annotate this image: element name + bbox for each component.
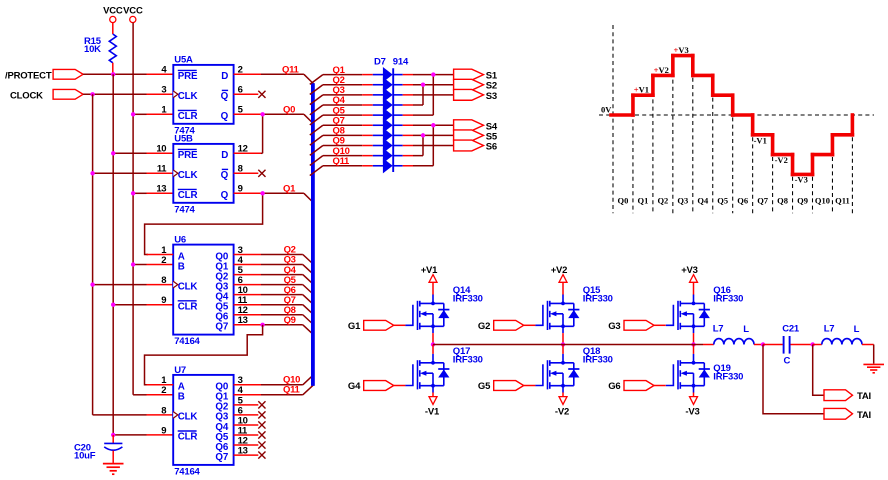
svg-text:10: 10 <box>156 144 166 155</box>
resistor R15 10K <box>84 23 116 75</box>
wire bus to diode D7 row Q8 <box>310 126 373 146</box>
input port /PROTECT <box>5 69 83 81</box>
waveform grid line 7 <box>752 137 754 213</box>
svg-text:CLR: CLR <box>178 432 198 443</box>
wire phase3 node to L7 <box>694 344 714 346</box>
svg-text:-V2: -V2 <box>555 406 569 417</box>
waveform level label -V3 <box>795 175 808 185</box>
wire /PROTECT net <box>83 73 173 75</box>
output port S2 <box>454 79 497 91</box>
diode D7 row Q1 <box>373 67 403 82</box>
wire net Q5 (U6 pin 6 to bus) <box>234 275 314 295</box>
label Q18 IRF330 <box>583 346 613 365</box>
waveform interval label Q6 <box>737 196 748 206</box>
wire diode row Q2 output <box>403 84 454 86</box>
svg-text:Q5: Q5 <box>717 196 728 206</box>
wire L7 to ground <box>862 345 874 364</box>
svg-text:74164: 74164 <box>174 336 200 347</box>
wire vcc rail (x=133.1) <box>132 23 134 395</box>
svg-text:U6: U6 <box>174 235 186 246</box>
waveform level label +V3 <box>674 45 689 55</box>
no-connect U7 pin 10 <box>234 421 266 428</box>
output port S5 <box>454 130 498 142</box>
svg-text:IRF330: IRF330 <box>453 294 483 305</box>
svg-text:0V: 0V <box>601 105 612 115</box>
diode D7 row Q3 <box>373 87 403 102</box>
wire node2 to TAI upper <box>813 345 824 396</box>
svg-text:CLR: CLR <box>178 190 198 201</box>
svg-text:CLOCK: CLOCK <box>10 90 43 101</box>
wire bus to diode D7 row Q11 <box>310 156 373 176</box>
wire +V1 to Q14 drain <box>432 282 434 294</box>
ground (below C20) <box>103 464 124 475</box>
wire diode row Q10 output <box>403 155 423 157</box>
svg-text:Q10: Q10 <box>815 196 830 206</box>
output port S1 <box>454 69 498 81</box>
waveform grid line 4 <box>692 78 694 213</box>
diode D7 row Q8 <box>373 128 403 143</box>
transistor Q17 IRF330 <box>405 354 449 393</box>
wire bus to diode D7 row Q5 <box>310 105 373 125</box>
svg-text:10uF: 10uF <box>74 451 96 462</box>
wire diode row Q11 output <box>403 165 434 167</box>
svg-text:+V1: +V1 <box>634 85 649 95</box>
wire node2 to L7 (second) <box>813 344 822 346</box>
svg-text:-V2: -V2 <box>775 155 788 165</box>
waveform level label +V2 <box>654 65 669 75</box>
wire junction drop S4 group <box>431 123 435 166</box>
wire C21 to node2 <box>791 344 813 346</box>
label Q16 IRF330 <box>713 285 743 304</box>
svg-text:CLR: CLR <box>178 111 198 122</box>
wire net Q6 (U6 pin 10 to bus) <box>234 285 314 305</box>
capacitor C20 10uF <box>74 433 122 463</box>
no-connect U7 pin 13 <box>234 451 266 458</box>
svg-text:2: 2 <box>161 255 166 266</box>
svg-text:Q: Q <box>221 190 229 201</box>
output port TAI (upper) <box>824 390 871 402</box>
wire net Q11 (U7 pin4 to bus) <box>234 384 314 395</box>
wire bus to diode D7 row Q4 <box>310 95 373 115</box>
IC U5B 7474 <box>156 134 247 216</box>
svg-text:Q: Q <box>221 111 229 122</box>
wire junction drop S2 group <box>421 83 425 105</box>
wire bus to diode D7 row Q7 <box>310 115 373 135</box>
svg-text:G3: G3 <box>608 321 620 332</box>
wire phase node to Q18 drain <box>562 345 564 354</box>
waveform interval label Q10 <box>815 196 830 206</box>
svg-text:7474: 7474 <box>174 205 195 216</box>
svg-text:TAI: TAI <box>857 391 871 402</box>
svg-text:IRF330: IRF330 <box>453 355 483 366</box>
label Q15 IRF330 <box>583 285 613 304</box>
svg-text:+V1: +V1 <box>421 265 438 276</box>
output port S3 <box>454 89 497 101</box>
wire Q15 source to phase node <box>562 333 564 344</box>
waveform interval label Q5 <box>717 196 728 206</box>
svg-text:S6: S6 <box>486 142 497 153</box>
svg-text:IRF330: IRF330 <box>713 294 743 305</box>
waveform grid line 10 <box>812 177 814 213</box>
wire bus to diode D7 row Q1 <box>310 65 373 85</box>
svg-text:10K: 10K <box>84 44 101 55</box>
waveform axis (dashed) <box>599 114 874 116</box>
diode array cathode bar <box>392 68 394 172</box>
svg-text:Q11: Q11 <box>333 156 351 167</box>
waveform interval label Q7 <box>757 196 769 206</box>
svg-text:Q: Q <box>221 91 229 102</box>
svg-text:PRE: PRE <box>178 71 198 82</box>
wire tap to U7 pin2 <box>133 394 173 396</box>
waveform interval label Q11 <box>835 196 850 206</box>
wire L7 to node1 <box>754 344 763 346</box>
svg-text:G2: G2 <box>478 321 490 332</box>
waveform level label -V1 <box>754 135 767 145</box>
svg-text:B: B <box>178 392 185 403</box>
wire Q14 source to phase node <box>432 333 434 344</box>
output port TAI (lower) <box>824 408 871 420</box>
svg-text:G6: G6 <box>608 381 620 392</box>
node phase 1 <box>431 342 435 346</box>
wire net Q3 (U6 pin 4 to bus) <box>234 255 314 275</box>
svg-text:Q1: Q1 <box>283 184 296 195</box>
wire diode row Q4 output <box>403 104 423 106</box>
input port G2 <box>478 320 524 332</box>
svg-text:G1: G1 <box>348 321 361 332</box>
svg-text:Q7: Q7 <box>215 452 228 463</box>
svg-text:+V2: +V2 <box>551 265 568 276</box>
no-connect U7 pin 12 <box>234 441 266 448</box>
svg-text:U5A: U5A <box>174 55 193 66</box>
node /PROTECT-R15 junction <box>111 72 115 76</box>
svg-text:IRF330: IRF330 <box>583 294 613 305</box>
svg-text:Q1: Q1 <box>637 196 648 206</box>
svg-text:U5B: U5B <box>174 134 193 145</box>
svg-text:Q0: Q0 <box>618 196 629 206</box>
transistor Q14 IRF330 <box>405 295 449 334</box>
transistor Q15 IRF330 <box>535 295 579 334</box>
svg-text:13: 13 <box>156 184 166 195</box>
output port S6 <box>454 140 497 152</box>
IC U7 74164 <box>161 365 248 478</box>
wire junction drop S5 group <box>421 133 425 155</box>
waveform interval label Q0 <box>618 196 629 206</box>
svg-text:D: D <box>221 71 228 82</box>
waveform interval label Q1 <box>637 196 648 206</box>
node phase 2 <box>561 342 565 346</box>
svg-text:9: 9 <box>161 425 166 436</box>
wire tap to U6 pin8 <box>90 282 173 286</box>
waveform grid line 5 <box>712 98 714 214</box>
inductor L7 L (second) <box>822 324 862 345</box>
wire net Q10 (U7 pin3 to bus) <box>234 374 314 385</box>
wire node1 to C21 <box>763 344 783 346</box>
label Q14 IRF330 <box>453 285 483 304</box>
no-connect U7 pin 5 <box>234 401 266 408</box>
waveform interval label Q9 <box>797 196 808 206</box>
svg-text:Q7: Q7 <box>757 196 769 206</box>
svg-text:+V3: +V3 <box>681 265 698 276</box>
diode D7 row Q5 <box>373 108 403 123</box>
waveform interval label Q8 <box>777 196 788 206</box>
wire U6 pin13 to U7 pin1 <box>145 325 263 385</box>
wire +V2 to Q15 drain <box>562 282 564 294</box>
capacitor C21 C <box>782 324 800 367</box>
waveform grid line 8 <box>772 157 774 213</box>
wire clock rail (x=92.6) <box>92 94 94 415</box>
svg-text:CLK: CLK <box>178 412 198 423</box>
svg-text:11: 11 <box>157 164 167 175</box>
no-connect U7 pin 11 <box>234 431 266 438</box>
svg-text:CLK: CLK <box>178 170 198 181</box>
svg-text:8: 8 <box>161 405 166 416</box>
svg-text:IRF330: IRF330 <box>583 355 613 366</box>
svg-text:-V1: -V1 <box>754 135 767 145</box>
svg-text:2: 2 <box>161 385 166 396</box>
IC U6 74164 <box>161 235 248 347</box>
svg-text:U7: U7 <box>174 365 186 376</box>
diode D7 row Q4 <box>373 97 403 112</box>
waveform grid line 6 <box>732 117 734 213</box>
waveform level label 0V <box>601 105 612 115</box>
svg-text:Q9: Q9 <box>797 196 808 206</box>
svg-text:Q11: Q11 <box>283 384 301 395</box>
input port G6 <box>608 381 654 393</box>
input port CLOCK <box>10 89 83 101</box>
svg-text:Q11: Q11 <box>835 196 850 206</box>
input port G5 <box>478 381 524 393</box>
svg-text:914: 914 <box>393 56 409 67</box>
svg-text:Q2: Q2 <box>657 196 668 206</box>
svg-text:D: D <box>221 150 228 161</box>
svg-text:IRF330: IRF330 <box>713 371 743 382</box>
svg-text:VCC: VCC <box>103 6 123 17</box>
waveform grid line 11 <box>831 157 833 213</box>
waveform grid line 12 <box>851 137 853 213</box>
svg-text:B: B <box>178 261 185 272</box>
wire diode row Q9 output <box>403 145 454 147</box>
svg-text:Q11: Q11 <box>282 65 300 76</box>
diode D7 row Q7 <box>373 118 403 133</box>
diode D7 row Q11 <box>373 158 403 173</box>
svg-text:L: L <box>743 324 749 335</box>
svg-text:G5: G5 <box>478 381 491 392</box>
svg-text:74164: 74164 <box>174 467 200 478</box>
wire net Q11 (U5A pin2 to bus) <box>234 65 314 84</box>
waveform grid line 9 <box>792 177 794 213</box>
transistor Q16 IRF330 <box>666 295 710 334</box>
node phase 3 <box>691 342 695 346</box>
input port G1 <box>348 320 394 332</box>
wire phase node to Q19 drain <box>693 345 695 354</box>
wire Q18 source to -V2 <box>562 393 564 397</box>
svg-text:-V3: -V3 <box>685 406 699 417</box>
label Q17 IRF330 <box>453 346 483 365</box>
diode D7 row Q9 <box>373 138 403 153</box>
inductor L7 L (first) <box>713 324 754 345</box>
waveform interval label Q4 <box>697 196 709 206</box>
wire tap to U6 pin2 <box>131 262 173 266</box>
input port G4 <box>348 381 394 393</box>
wire net Q1 (U5B pin9 to bus and U6 pin1) <box>145 184 314 255</box>
diode array label D7 914 <box>374 56 409 67</box>
transistor Q19 IRF330 <box>666 354 710 393</box>
power symbol +V3 <box>681 265 698 282</box>
wire net Q8 (U6 pin 12 to bus) <box>234 305 314 325</box>
svg-text:/PROTECT: /PROTECT <box>5 70 52 81</box>
svg-text:Q4: Q4 <box>697 196 709 206</box>
svg-text:L7: L7 <box>713 324 724 335</box>
waveform grid line 2 <box>652 78 654 213</box>
wire G1 to gate <box>394 324 406 326</box>
wire diode row Q1 output <box>403 74 454 76</box>
wire diode row Q5 output <box>403 114 434 116</box>
waveform grid line 1 <box>632 98 634 214</box>
svg-text:-V1: -V1 <box>425 406 440 417</box>
wire protect rail (x=113.2) <box>112 74 114 435</box>
wire net Q7 (U6 pin 11 to bus) <box>234 295 314 315</box>
wire Q19 source to -V3 <box>693 393 695 397</box>
wire bus to diode D7 row Q10 <box>310 146 373 166</box>
wire G6 to gate <box>654 385 666 387</box>
bus (vertical blue) <box>311 83 315 386</box>
svg-text:Q9: Q9 <box>284 315 296 326</box>
wire G4 to gate <box>394 385 406 387</box>
svg-text:3: 3 <box>161 85 166 96</box>
power symbol +V1 <box>421 265 438 282</box>
wire net Q2 (U6 pin 3 to bus) <box>234 245 314 265</box>
power symbol VCC (right) <box>123 6 143 23</box>
wire G3 to gate <box>654 324 666 326</box>
wire G5 to gate <box>524 385 536 387</box>
svg-text:-V3: -V3 <box>795 175 808 185</box>
power symbol -V3 <box>685 397 699 418</box>
input port G3 <box>608 320 654 332</box>
ground (filter) <box>863 364 884 372</box>
wire bus to diode D7 row Q9 <box>310 136 373 156</box>
wire tap to U7 pin8 <box>93 414 174 416</box>
svg-text:Q0: Q0 <box>283 105 295 116</box>
svg-text:C: C <box>784 355 791 366</box>
wire phase node to Q17 drain <box>432 345 434 354</box>
wire +V3 to Q16 drain <box>693 282 695 294</box>
wire bus to diode D7 row Q2 <box>310 75 373 95</box>
waveform staircase <box>611 56 852 175</box>
svg-text:S3: S3 <box>486 91 497 102</box>
wire Q17 source to -V1 <box>432 393 434 397</box>
wire junction drop S1 group <box>431 72 435 115</box>
wire tap to U5B pin10 <box>111 151 173 155</box>
wire tap to U5B pin13 <box>131 191 173 195</box>
svg-text:PRE: PRE <box>178 150 198 161</box>
waveform level label +V1 <box>634 85 649 95</box>
svg-text:Q7: Q7 <box>215 322 228 333</box>
power symbol -V2 <box>555 397 569 418</box>
svg-text:Q6: Q6 <box>737 196 748 206</box>
svg-text:+V2: +V2 <box>654 65 669 75</box>
wire node1 to TAI lower <box>763 345 824 414</box>
wire G2 to gate <box>524 324 536 326</box>
no-connect U5B pin8 <box>234 170 266 177</box>
output port S4 <box>454 120 498 132</box>
no-connect U5A pin6 <box>234 91 266 98</box>
svg-text:CLK: CLK <box>178 281 198 292</box>
wire diode row Q3 output <box>403 94 454 96</box>
wire tap to U5B pin11 <box>90 171 173 175</box>
wire tap to U5A pin1 <box>131 112 173 116</box>
waveform interval label Q3 <box>677 196 688 206</box>
svg-text:TAI: TAI <box>857 410 871 421</box>
diode D7 row Q10 <box>373 148 403 163</box>
svg-text:CLR: CLR <box>178 302 198 313</box>
wire Q16 source to phase node <box>693 333 695 344</box>
IC U5A 7474 <box>161 55 243 137</box>
wire net Q0 (U5A pin5 to bus and U5B pin12) <box>234 105 314 154</box>
svg-text:VCC: VCC <box>123 6 143 17</box>
waveform grid line 0 <box>612 25 614 213</box>
svg-text:L: L <box>854 324 860 335</box>
node U6 pin13 junction <box>260 323 264 327</box>
waveform level label -V2 <box>775 155 788 165</box>
wire bus to diode D7 row Q3 <box>310 85 373 105</box>
wire diode row Q8 output <box>403 134 454 136</box>
wire net Q9 (U6 pin 13 to bus) <box>234 315 314 335</box>
power symbol -V1 <box>425 397 440 418</box>
svg-text:Q: Q <box>221 170 229 181</box>
svg-text:8: 8 <box>161 275 166 286</box>
waveform interval label Q2 <box>657 196 668 206</box>
node CLOCK rail junction <box>90 92 94 96</box>
label Q19 IRF330 <box>713 363 743 382</box>
transistor Q18 IRF330 <box>535 354 579 393</box>
waveform grid line 3 <box>672 58 674 213</box>
wire tap to U6 pin9 <box>111 303 173 307</box>
node filter 2 <box>811 342 815 346</box>
wire diode row Q7 output <box>403 124 454 126</box>
svg-text:9: 9 <box>161 295 166 306</box>
svg-text:Q3: Q3 <box>677 196 688 206</box>
svg-text:G4: G4 <box>348 381 361 392</box>
power symbol +V2 <box>551 265 568 282</box>
wire CLOCK net <box>83 93 173 95</box>
svg-text:L7: L7 <box>824 324 835 335</box>
diode D7 row Q2 <box>373 77 403 92</box>
wire tap to U7 pin9 <box>113 434 173 436</box>
svg-text:+V3: +V3 <box>674 45 689 55</box>
no-connect U7 pin 6 <box>234 411 266 418</box>
wire phase output rail <box>433 344 694 346</box>
node filter 1 <box>761 342 765 346</box>
svg-text:CLK: CLK <box>178 91 198 102</box>
svg-text:C21: C21 <box>782 324 800 335</box>
wire net Q4 (U6 pin 5 to bus) <box>234 265 314 285</box>
svg-text:D7: D7 <box>374 56 386 67</box>
power symbol VCC (left) <box>103 6 123 23</box>
svg-text:Q8: Q8 <box>777 196 788 206</box>
